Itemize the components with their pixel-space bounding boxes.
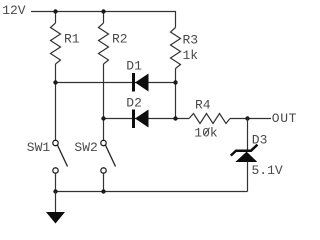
svg-text:1k: 1k [183, 48, 199, 63]
svg-text:D1: D1 [126, 58, 142, 73]
diode D1 [126, 58, 148, 91]
junction dot node B at R3 wire [173, 116, 177, 120]
wire D3 bottom lead [247, 162, 249, 192]
wire ground stem [55, 192, 57, 213]
switch SW2 [74, 140, 115, 173]
wire top rail from 12V to R3 corner [31, 12, 176, 28]
junction dot top rail at R1 [53, 9, 57, 13]
wire R3 bottom lead [175, 69, 177, 119]
resistor R4 with value 10k [189, 97, 230, 140]
wire R2 bottom lead down to SW2 [103, 64, 105, 140]
diode D2 [126, 95, 148, 128]
switch SW1 [27, 140, 68, 173]
wire node B horizontal through D2 to R4 [104, 118, 190, 120]
wire SW2 bottom lead [103, 173, 105, 191]
svg-text:OUT: OUT [272, 111, 297, 126]
svg-text:R4: R4 [195, 97, 211, 112]
resistor R3 with value 1k [171, 28, 199, 69]
junction dot node A at R3 wire [173, 80, 177, 84]
junction dot bottom rail at SW2 [101, 189, 105, 193]
wire node B from R4 to OUT [230, 118, 271, 120]
wire node A horizontal through D1 [56, 82, 176, 84]
svg-text:D3: D3 [252, 132, 268, 147]
wire SW1 bottom lead [55, 173, 57, 191]
wire R1 top lead [55, 12, 57, 24]
svg-text:5.1V: 5.1V [252, 163, 283, 178]
junction dot bottom rail at SW1 [53, 189, 57, 193]
resistor R2 [99, 23, 128, 64]
wire R1 bottom lead down to SW1 [55, 64, 57, 140]
junction dot node A at R1 [53, 80, 57, 84]
svg-text:R3: R3 [183, 33, 199, 48]
wire bottom return rail [56, 191, 248, 193]
zener diode D3 with value 5.1V [231, 132, 283, 178]
svg-text:SW1: SW1 [27, 140, 51, 155]
ground [46, 212, 65, 224]
svg-text:12V: 12V [2, 3, 26, 18]
svg-text:D2: D2 [126, 95, 142, 110]
svg-text:SW2: SW2 [74, 140, 97, 155]
wire R2 top lead [103, 12, 105, 24]
svg-text:R1: R1 [64, 32, 80, 47]
wire D3 top lead [247, 119, 249, 151]
junction dot node B at D3 [245, 116, 249, 120]
resistor R1 [51, 23, 80, 64]
junction dot top rail at R2 [101, 9, 105, 13]
svg-text:R2: R2 [112, 32, 128, 47]
junction dot node B at R2 wire [101, 116, 105, 120]
